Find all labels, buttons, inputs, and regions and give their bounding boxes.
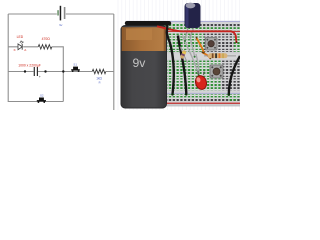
svg-text:9v: 9v [133, 56, 147, 70]
svg-text:R: R [99, 80, 101, 84]
svg-text:470Ω: 470Ω [42, 37, 51, 41]
svg-text:LED: LED [17, 35, 24, 39]
svg-text:S1: S1 [73, 62, 77, 66]
svg-text:1kΩ: 1kΩ [96, 77, 102, 81]
svg-text:S2: S2 [40, 94, 44, 98]
svg-text:+: + [39, 75, 41, 79]
svg-text:1000 x 2200µF: 1000 x 2200µF [18, 63, 41, 67]
svg-text:9v: 9v [59, 23, 63, 27]
